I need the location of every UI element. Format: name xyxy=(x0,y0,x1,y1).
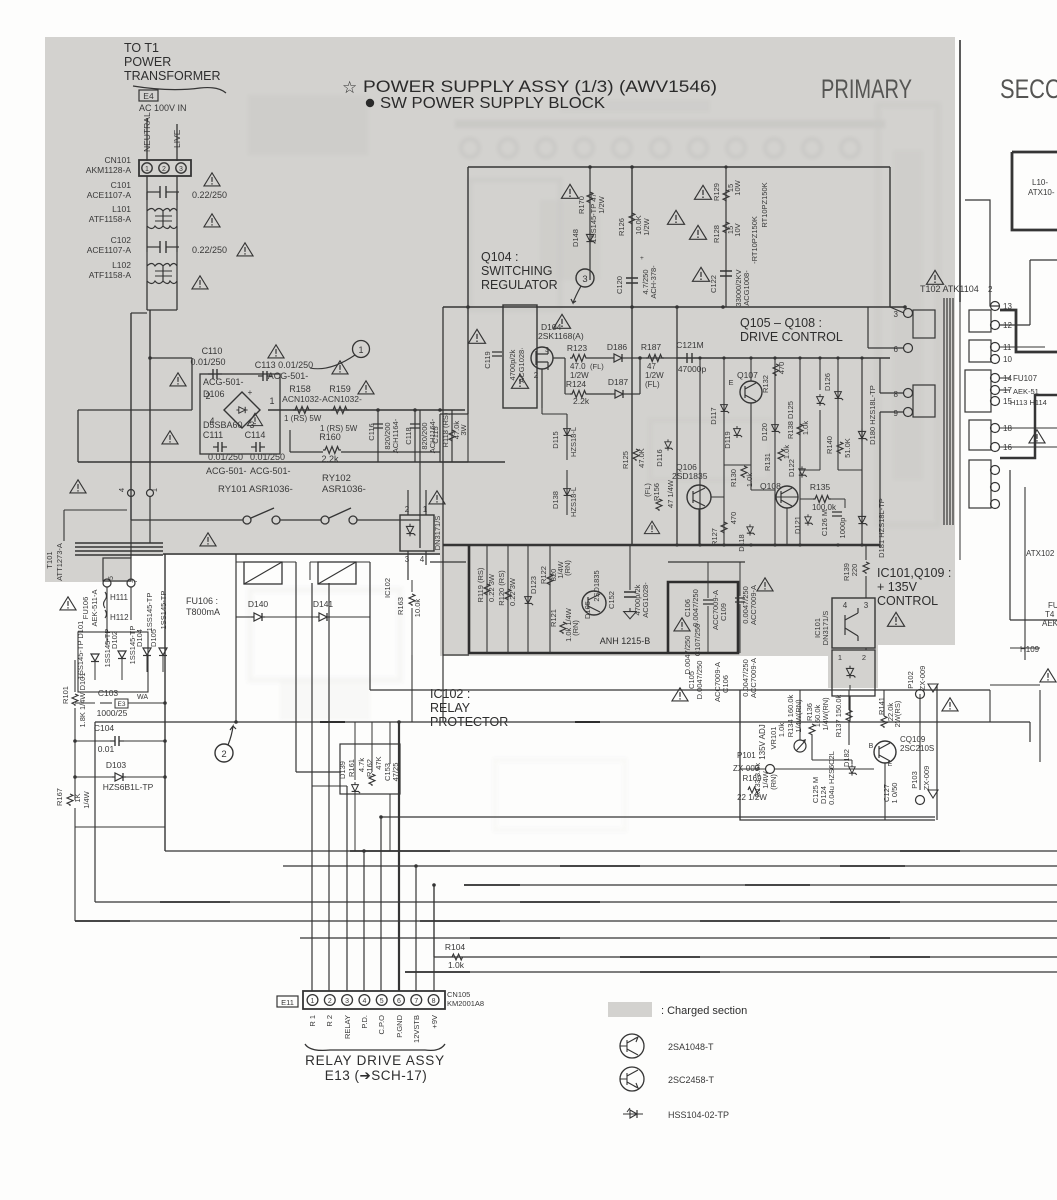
svg-text:SW POWER SUPPLY BLOCK: SW POWER SUPPLY BLOCK xyxy=(380,95,606,112)
IC101 phototransistor symbol xyxy=(845,608,858,641)
svg-text:CQ109: CQ109 xyxy=(900,735,926,744)
svg-text:P101: P101 xyxy=(737,751,756,760)
svg-text:R158: R158 xyxy=(289,384,311,394)
svg-text:C.P.O: C.P.O xyxy=(377,1015,386,1035)
IC101 to bus wires xyxy=(849,720,851,722)
svg-text:R 2: R 2 xyxy=(325,1015,334,1027)
svg-text:1: 1 xyxy=(311,998,315,1005)
zener D180 xyxy=(861,358,863,545)
svg-text:ASR1036-: ASR1036- xyxy=(322,484,366,495)
svg-text:ANH 1215-B: ANH 1215-B xyxy=(600,636,651,646)
resistor R159 xyxy=(331,407,349,414)
comb vertical 1 xyxy=(699,358,701,545)
svg-text:R167: R167 xyxy=(55,788,64,806)
warning triangle top D148 xyxy=(561,184,578,198)
T102 primary pin 9 xyxy=(904,408,913,417)
svg-text:1 (RS) 5W: 1 (RS) 5W xyxy=(284,414,322,423)
svg-text:3: 3 xyxy=(582,274,587,285)
warning triangle above box xyxy=(553,314,570,328)
warning triangle below L102 xyxy=(192,276,208,289)
right area verticals x990 xyxy=(989,690,991,722)
warning triangle right of IC101 xyxy=(887,612,904,626)
svg-text:R130: R130 xyxy=(729,469,738,487)
drive comb mid horizontals xyxy=(724,464,751,466)
svg-text:FU106 :: FU106 : xyxy=(186,596,218,606)
rail y772 left segment xyxy=(296,771,340,773)
circled 3 callout xyxy=(576,269,594,287)
svg-text:C119: C119 xyxy=(483,351,492,368)
trunk continuation to T101 xyxy=(130,497,132,558)
thick charged outline box left xyxy=(469,545,738,653)
svg-text:R124: R124 xyxy=(566,379,587,389)
legend charged section swatch xyxy=(608,1002,652,1017)
cluster risers to rails xyxy=(919,694,921,699)
cluster box outline xyxy=(740,690,935,820)
svg-text:470: 470 xyxy=(729,512,738,525)
svg-text:1.0k: 1.0k xyxy=(801,421,810,435)
svg-text:2SA1048-T: 2SA1048-T xyxy=(668,1042,714,1052)
charged section patch around IC101 xyxy=(828,645,878,688)
R120 (RS) column xyxy=(507,545,509,653)
warning triangle above T102 xyxy=(926,270,943,284)
capacitor C110 xyxy=(208,369,222,379)
svg-text:P.GND: P.GND xyxy=(395,1014,404,1037)
svg-text:C116: C116 xyxy=(367,423,376,440)
svg-text:ACC7009-A: ACC7009-A xyxy=(749,658,758,698)
thick secondary wire 4 xyxy=(1000,395,1057,458)
capacitor C120 symbol xyxy=(626,278,638,283)
svg-text:Q107: Q107 xyxy=(737,370,758,380)
T102 primary pin 6 xyxy=(904,344,913,353)
svg-text:R122: R122 xyxy=(539,566,548,584)
warning triangle near photocoupler xyxy=(429,491,445,504)
svg-text:T102 ATK1104: T102 ATK1104 xyxy=(920,284,979,294)
svg-text:1000p: 1000p xyxy=(838,518,847,539)
svg-text:R121: R121 xyxy=(549,609,558,627)
capacitor C119 xyxy=(492,352,502,356)
diode cluster inner verticals xyxy=(94,662,96,680)
rail y722 long xyxy=(95,721,1030,723)
wire relay trunks down xyxy=(235,617,237,722)
svg-text:1/2W: 1/2W xyxy=(642,217,651,235)
resistor R139 xyxy=(863,562,869,574)
svg-text:C110: C110 xyxy=(202,346,223,356)
svg-text:9: 9 xyxy=(894,409,899,418)
IC101 LED symbol xyxy=(846,666,855,679)
diode D125 xyxy=(817,394,826,406)
svg-text:R170: R170 xyxy=(577,196,586,214)
svg-text:AKM1128-A: AKM1128-A xyxy=(86,165,132,175)
capacitor C114 xyxy=(251,442,265,452)
svg-text:ACG1028-: ACG1028- xyxy=(641,582,650,618)
svg-text:3: 3 xyxy=(179,166,183,173)
connector CN101 xyxy=(139,160,191,176)
wire D186 D187 join right xyxy=(639,358,641,394)
svg-text:D122: D122 xyxy=(787,459,796,477)
svg-text:ATF1158-A: ATF1158-A xyxy=(89,214,132,224)
junction dots top rail xyxy=(588,165,592,169)
svg-text:ACG1008-: ACG1008- xyxy=(742,270,751,306)
svg-text:L10-: L10- xyxy=(1032,178,1048,187)
main rail from bridge right xyxy=(268,409,465,411)
bus line 2 y866 xyxy=(283,865,1057,867)
svg-text:Q105 – Q108 :: Q105 – Q108 : xyxy=(740,316,822,330)
svg-text:C152: C152 xyxy=(607,591,616,609)
svg-text:HZS18-L: HZS18-L xyxy=(569,427,578,457)
warning triangle right pins xyxy=(1029,430,1045,443)
junction 2 arrow target xyxy=(234,720,238,724)
resistor R129 column xyxy=(725,167,727,307)
left stub of bridge rails xyxy=(78,409,192,411)
wire R123/R124 left joins xyxy=(564,358,566,394)
svg-text:ACE1107-A: ACE1107-A xyxy=(87,245,132,255)
thick secondary wire 1 xyxy=(1012,151,1057,154)
diode D105b xyxy=(159,648,167,656)
thick secondary wire 3 xyxy=(1000,310,1057,352)
svg-text:0.22 3W: 0.22 3W xyxy=(508,577,517,606)
svg-text:L101: L101 xyxy=(112,204,131,214)
svg-text:E4: E4 xyxy=(143,91,154,101)
wire D141 row xyxy=(296,616,316,618)
svg-text:D186: D186 xyxy=(607,342,628,352)
svg-text:R135: R135 xyxy=(810,482,831,492)
bus line 1 y851 xyxy=(165,850,1057,852)
svg-text:1 0/50: 1 0/50 xyxy=(890,783,899,804)
svg-text:KM2001A8: KM2001A8 xyxy=(447,999,484,1008)
svg-text:H112: H112 xyxy=(110,613,129,622)
svg-text:3: 3 xyxy=(864,601,869,610)
svg-text:P.D.: P.D. xyxy=(360,1015,369,1029)
svg-text:R101: R101 xyxy=(61,686,70,704)
wire R139 riser xyxy=(865,545,867,560)
secondary winding boxes xyxy=(969,310,991,332)
svg-text:220: 220 xyxy=(850,564,859,577)
svg-text:AEK-511-A: AEK-511-A xyxy=(90,590,99,627)
transistor Q107 xyxy=(740,381,762,403)
wire Q104 to R123 node xyxy=(553,357,565,359)
R170 branch wire xyxy=(589,167,591,280)
svg-text:D121: D121 xyxy=(793,516,802,534)
wire x443 down to rail722 xyxy=(442,655,444,722)
svg-text:RT10PZ150K: RT10PZ150K xyxy=(760,182,769,227)
svg-text:4: 4 xyxy=(843,601,848,610)
svg-text:1.8K 1/4W D101: 1.8K 1/4W D101 xyxy=(78,672,87,727)
wire pin6 stub xyxy=(868,347,904,349)
bus line 4 y902 xyxy=(95,901,1057,903)
riser pin1 xyxy=(311,583,313,991)
left chain wires xyxy=(74,660,76,692)
photocoupler IC102 box xyxy=(400,515,434,551)
vertical pair x462-468 lower xyxy=(467,414,469,462)
svg-text:6: 6 xyxy=(397,998,401,1005)
svg-text:+: + xyxy=(640,255,644,262)
wire relay row xyxy=(131,519,243,521)
svg-text:6: 6 xyxy=(894,345,899,354)
svg-text:ACN1032-: ACN1032- xyxy=(282,394,322,404)
svg-text:RY101 ASR1036-: RY101 ASR1036- xyxy=(218,484,293,495)
riser pin6 thick xyxy=(398,722,400,991)
wire trunk right down xyxy=(149,310,151,490)
legend transistor 2SA1048-T symbol xyxy=(620,1034,644,1058)
capacitor C104 xyxy=(110,736,124,746)
rail y462 extension to regulator xyxy=(440,461,468,463)
riser pin4 xyxy=(363,851,365,991)
svg-text:2: 2 xyxy=(162,166,166,173)
svg-text:10: 10 xyxy=(1003,355,1012,364)
svg-text:T800mA: T800mA xyxy=(186,607,220,617)
junction dots drive rail xyxy=(698,356,701,359)
transistor Q109 xyxy=(874,741,896,763)
svg-text:0.01/250: 0.01/250 xyxy=(190,357,225,367)
svg-text:47.0: 47.0 xyxy=(570,362,586,371)
T101 pins 5 7 xyxy=(103,579,111,587)
wire Q104 down xyxy=(541,369,543,408)
svg-text:ATT1273-A: ATT1273-A xyxy=(55,543,64,581)
warning triangle right of C102 xyxy=(237,243,253,256)
svg-text:ACG-501-: ACG-501- xyxy=(250,466,291,476)
svg-text:HZS18-L: HZS18-L xyxy=(569,487,578,517)
resistor R104 xyxy=(452,954,464,960)
junction dots bottom rail xyxy=(675,543,678,546)
svg-text:R127: R127 xyxy=(710,528,719,546)
svg-text:WA: WA xyxy=(137,694,148,701)
svg-text:1: 1 xyxy=(150,488,159,492)
bus line 6 y938 xyxy=(300,937,1057,939)
capacitor C126 xyxy=(832,512,842,516)
svg-text:1: 1 xyxy=(838,653,842,662)
svg-text:REGULATOR: REGULATOR xyxy=(481,278,558,292)
riser pin2 xyxy=(328,583,330,991)
svg-text:2: 2 xyxy=(328,998,332,1005)
svg-text:1: 1 xyxy=(269,396,274,406)
warning triangle below gray xyxy=(672,688,688,701)
svg-text:H111: H111 xyxy=(110,593,128,602)
svg-text:PRIMARY: PRIMARY xyxy=(821,74,912,104)
svg-text:IC101,Q109 :: IC101,Q109 : xyxy=(877,566,951,580)
zener D115 column xyxy=(566,414,568,460)
svg-text:C102: C102 xyxy=(111,235,132,245)
wire bridge rail to relay riser xyxy=(419,410,421,520)
svg-text:D105: D105 xyxy=(583,601,592,619)
drive rail top xyxy=(663,357,665,359)
warning triangle below relay row xyxy=(200,533,216,546)
capacitor C109 xyxy=(735,598,745,602)
warning triangle above bridge xyxy=(268,345,284,358)
capacitor C113 xyxy=(258,371,272,381)
callout pointer 1 xyxy=(310,355,355,369)
svg-text:FU107: FU107 xyxy=(1013,374,1038,383)
warning triangle in bridge box xyxy=(247,413,262,425)
svg-text:FU: FU xyxy=(1048,601,1057,610)
svg-text:R163: R163 xyxy=(396,597,405,615)
svg-text:+ 135V: + 135V xyxy=(877,580,918,594)
svg-text:ZX-009: ZX-009 xyxy=(918,666,927,691)
riser pin5 xyxy=(380,817,382,991)
svg-text:2.2k: 2.2k xyxy=(321,454,339,464)
svg-text:TO T1: TO T1 xyxy=(124,41,159,55)
svg-text:1: 1 xyxy=(423,505,428,514)
svg-text:1/4W: 1/4W xyxy=(82,790,91,808)
svg-text:E: E xyxy=(728,378,733,387)
svg-text:2SD1835: 2SD1835 xyxy=(672,471,708,481)
wire rail to pin3 xyxy=(889,167,891,307)
capacitor C122 xyxy=(720,271,732,276)
svg-text:D118: D118 xyxy=(737,534,746,551)
wire live into CN101 xyxy=(176,124,178,161)
capacitor C118 column xyxy=(414,410,416,462)
svg-text:R131: R131 xyxy=(763,453,772,471)
svg-text:4: 4 xyxy=(420,555,425,564)
svg-text:ACG-501-: ACG-501- xyxy=(203,377,244,387)
svg-text:HSS104-02-TP: HSS104-02-TP xyxy=(668,1110,729,1120)
svg-text:D.0047/250: D.0047/250 xyxy=(695,661,704,700)
svg-text:47 1/4W: 47 1/4W xyxy=(666,479,675,508)
legend transistor 2SC2458-T symbol xyxy=(620,1067,644,1091)
svg-text:4: 4 xyxy=(362,998,366,1005)
svg-text:ACE1107-A: ACE1107-A xyxy=(87,190,132,200)
svg-text:470: 470 xyxy=(777,362,786,375)
regulator component box xyxy=(503,305,537,408)
cluster right edge xyxy=(936,685,938,820)
svg-text:D5SBA60: D5SBA60 xyxy=(203,420,243,430)
bracket under note xyxy=(133,86,226,93)
svg-text:AC 100V IN: AC 100V IN xyxy=(139,103,187,113)
drive comb bottom rail xyxy=(443,544,880,546)
riser pin8 xyxy=(433,885,435,991)
riser pin7 xyxy=(415,866,417,991)
left stub wire y510 xyxy=(64,509,127,511)
connector CN105 body xyxy=(303,991,445,1009)
line filter L101 xyxy=(147,192,177,229)
svg-text:CN101: CN101 xyxy=(105,155,132,165)
warning triangle R129 xyxy=(694,185,711,199)
svg-text:R 1: R 1 xyxy=(308,1015,317,1027)
svg-text:E: E xyxy=(888,761,893,768)
svg-text:R160: R160 xyxy=(319,432,341,442)
mid rail wire to T102 xyxy=(443,306,905,308)
svg-text:(FL): (FL) xyxy=(645,380,660,389)
svg-text:D119: D119 xyxy=(723,431,732,448)
svg-text:D102: D102 xyxy=(110,631,119,649)
transformer T101 winding lines xyxy=(75,542,163,544)
optocoupler IC101 box xyxy=(832,598,875,648)
svg-text:D140: D140 xyxy=(248,599,269,609)
warning triangle below P102 xyxy=(942,698,958,711)
svg-text:E3: E3 xyxy=(118,701,126,708)
svg-text:R141: R141 xyxy=(877,697,886,715)
T102 primary pin 3 xyxy=(904,309,913,318)
svg-text:10V: 10V xyxy=(733,223,742,236)
svg-text:R132: R132 xyxy=(761,375,770,393)
wires L101 to C102 xyxy=(146,226,148,252)
svg-text:5: 5 xyxy=(380,998,384,1005)
svg-text:4: 4 xyxy=(117,488,126,492)
svg-text:D126: D126 xyxy=(823,373,832,391)
svg-text:H113 H114: H113 H114 xyxy=(1010,398,1047,407)
wire pin8 stub xyxy=(880,392,904,394)
svg-text:SWITCHING: SWITCHING xyxy=(481,264,553,278)
svg-text:0.04u HZS6C2L: 0.04u HZS6C2L xyxy=(827,751,836,805)
svg-text:D116: D116 xyxy=(655,449,664,466)
warning triangle above C107 xyxy=(757,578,773,591)
svg-text:C101: C101 xyxy=(111,180,132,190)
relay coil box 2 xyxy=(318,562,356,584)
relay coil box 1 xyxy=(244,562,282,584)
diode D104 xyxy=(143,648,151,656)
svg-text:3W: 3W xyxy=(459,423,468,435)
warning triangle C106 xyxy=(674,618,690,631)
svg-text:1/2W: 1/2W xyxy=(645,371,664,380)
svg-text:D181 HZS18L-TP: D181 HZS18L-TP xyxy=(877,498,886,558)
svg-text:8: 8 xyxy=(894,390,899,399)
wire rail y554 right xyxy=(163,553,440,555)
svg-text:R159: R159 xyxy=(329,384,351,394)
svg-text:47.0K: 47.0K xyxy=(637,448,646,468)
warning triangle left edge xyxy=(60,597,76,610)
svg-text:135V ADJ: 135V ADJ xyxy=(758,724,767,760)
svg-text:D187: D187 xyxy=(608,377,629,387)
warning triangle near R159 xyxy=(358,381,374,394)
right lower double wires xyxy=(1039,690,1041,762)
svg-text:D120: D120 xyxy=(760,423,769,441)
svg-text:0.01: 0.01 xyxy=(98,744,115,754)
svg-text:R104: R104 xyxy=(445,942,466,952)
svg-text:D106: D106 xyxy=(203,389,225,399)
rail above box xyxy=(430,561,466,563)
svg-text:D139: D139 xyxy=(338,761,347,779)
svg-text:47K: 47K xyxy=(374,756,383,769)
svg-text:D141: D141 xyxy=(313,599,334,609)
svg-text:D.0047/250: D.0047/250 xyxy=(683,636,692,675)
R119 (RS) column xyxy=(486,545,488,653)
left trunk x94 xyxy=(94,722,96,902)
junction dots rail xyxy=(376,408,380,412)
primary/secondary divider line xyxy=(959,40,961,302)
diode D117 xyxy=(721,402,730,414)
svg-text:C113 0.01/250: C113 0.01/250 xyxy=(255,360,313,370)
D139 R161 cluster box xyxy=(340,744,400,794)
svg-text:DN3171/S: DN3171/S xyxy=(433,516,442,551)
svg-text:ATX102: ATX102 xyxy=(1026,549,1055,558)
svg-text:D182: D182 xyxy=(842,749,851,767)
wire bridge top rail xyxy=(191,358,193,410)
zener D181 xyxy=(858,514,867,527)
svg-text:C109: C109 xyxy=(719,603,728,621)
svg-text:R138 D125: R138 D125 xyxy=(786,401,795,439)
wire D139 box to bus xyxy=(389,794,391,851)
bus line 3 y885 xyxy=(464,884,1057,886)
wire photocoupler risers xyxy=(407,490,409,515)
left vertical feed wire xyxy=(467,167,469,414)
svg-text:D138: D138 xyxy=(551,491,560,509)
charged section shading (primary side) xyxy=(45,37,955,656)
resistor R160 xyxy=(323,447,341,454)
capacitor C111 xyxy=(213,442,227,452)
cluster box around diodes xyxy=(78,632,148,692)
wire R135 row xyxy=(800,498,813,500)
circled 1 callout xyxy=(353,341,370,358)
svg-text:R129: R129 xyxy=(712,183,721,201)
bridge rectifier D106 D5SBA60 outline box xyxy=(200,374,280,454)
svg-text:0.01/250: 0.01/250 xyxy=(250,452,285,462)
svg-text:0.01/250: 0.01/250 xyxy=(208,452,243,462)
warning triangle left of box xyxy=(468,329,485,343)
svg-text:(FL): (FL) xyxy=(590,362,604,371)
svg-text:C115: C115 xyxy=(431,426,440,443)
T102 secondary pins column xyxy=(991,302,1000,311)
top rail wire xyxy=(468,166,890,168)
D123 column xyxy=(527,545,529,653)
